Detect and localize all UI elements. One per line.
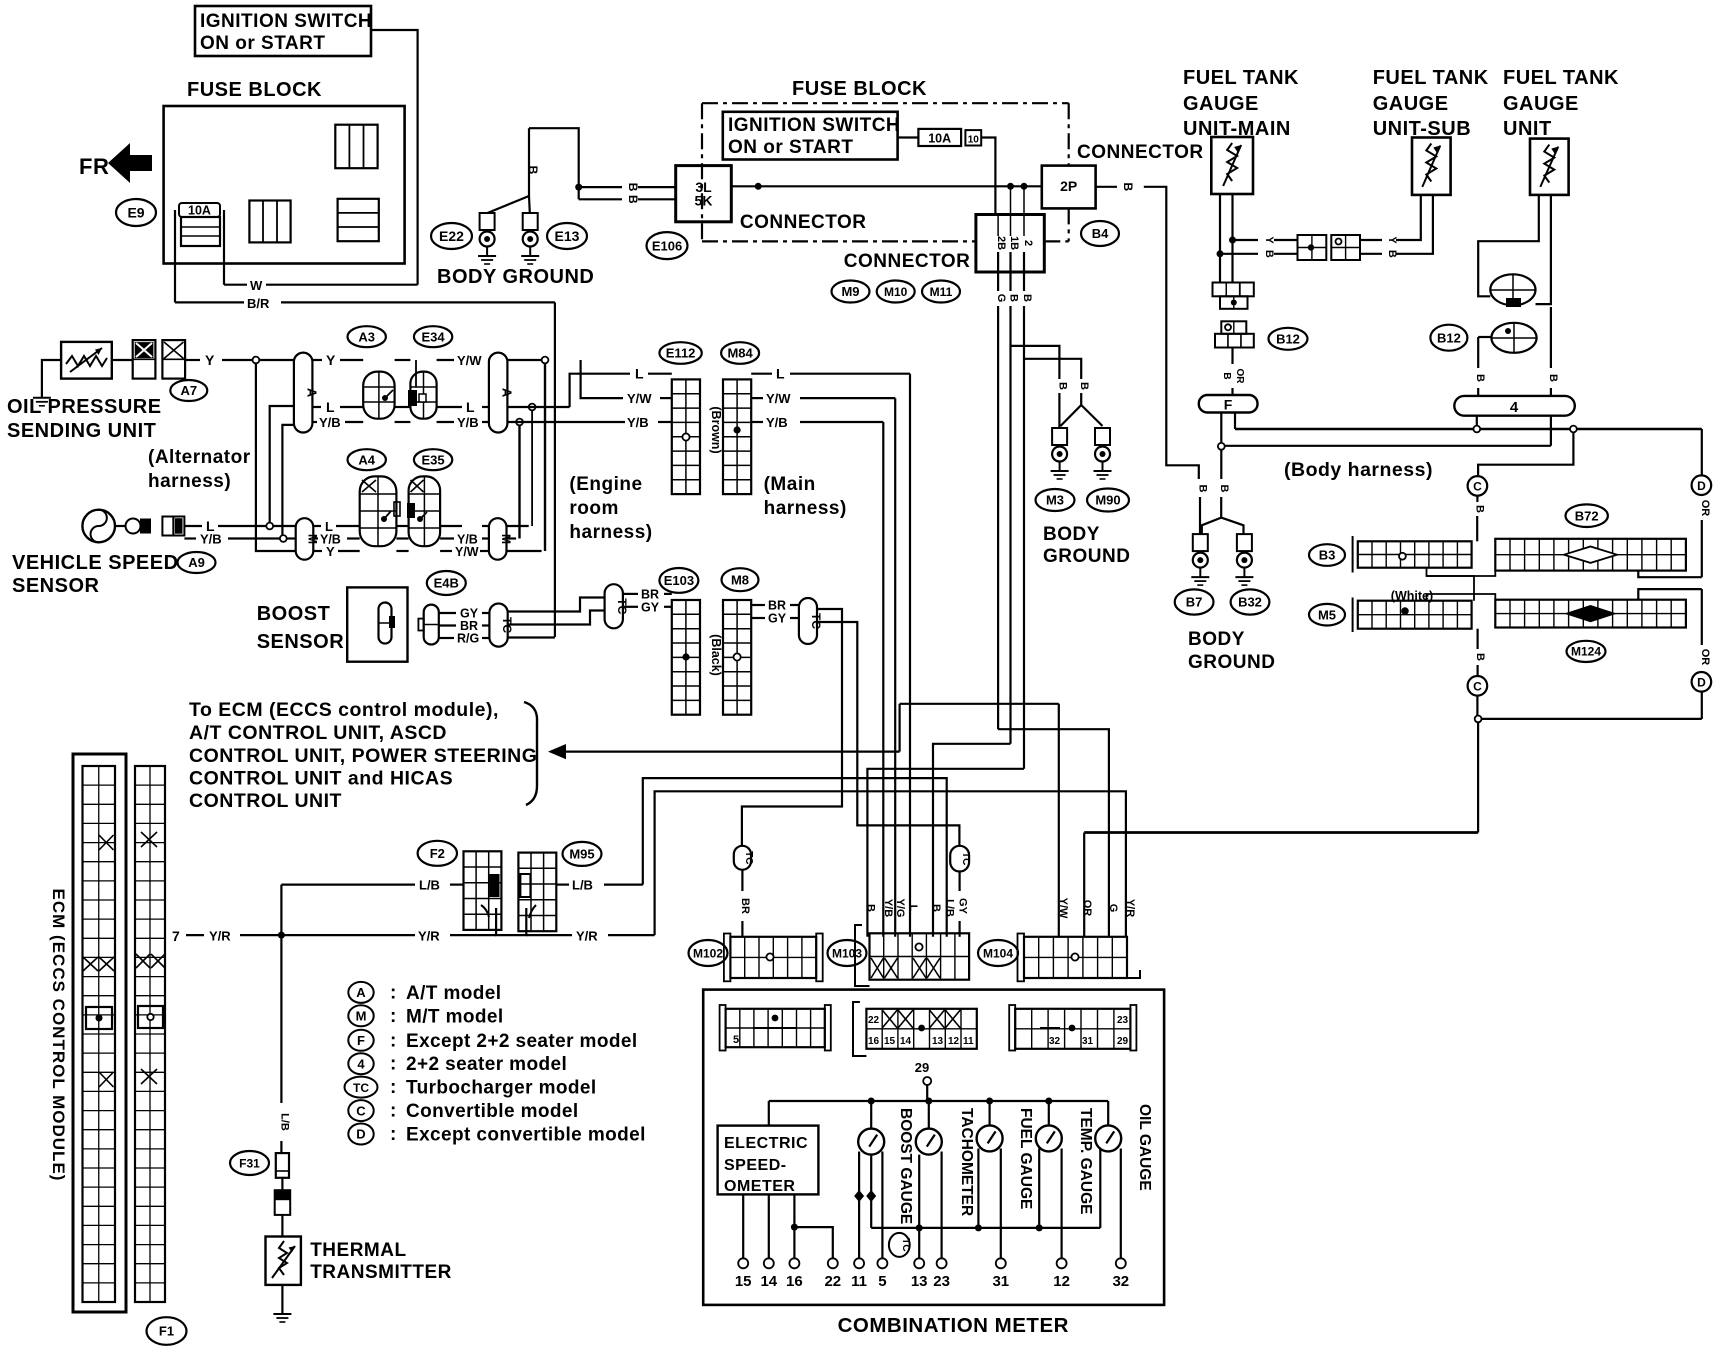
svg-text:TRANSMITTER: TRANSMITTER — [310, 1262, 452, 1283]
BODY GROUND label (M3/M90) — [1043, 524, 1130, 567]
connector A3 round — [363, 372, 394, 419]
wire 4 left pin — [1476, 416, 1478, 426]
connector E35 grid — [407, 476, 440, 546]
svg-text:CONTROL UNIT: CONTROL UNIT — [189, 790, 342, 812]
svg-text:BR: BR — [768, 599, 786, 613]
wire B lower with label — [579, 195, 676, 204]
svg-text:SENSOR: SENSOR — [12, 575, 100, 597]
connector M84 grid — [723, 379, 751, 494]
wire tach top — [928, 1101, 930, 1129]
wire boost top — [870, 1101, 872, 1129]
svg-text:E34: E34 — [422, 329, 446, 344]
meter connector 2 — [853, 1002, 977, 1056]
svg-text:A/T CONTROL UNIT, ASCD: A/T CONTROL UNIT, ASCD — [189, 722, 447, 744]
wire GY east of M8 — [751, 612, 799, 626]
svg-text:B4: B4 — [1092, 226, 1109, 241]
svg-text:A: A — [356, 985, 366, 1000]
wire B2 branch to M90 ground — [1024, 359, 1081, 379]
svg-text:1B: 1B — [1008, 236, 1020, 250]
inline connector pair (main-sub) — [1298, 235, 1361, 260]
svg-text:BODY: BODY — [1043, 524, 1100, 545]
speedometer wires — [743, 1194, 833, 1258]
oil pressure sending unit resistor — [61, 342, 112, 379]
svg-text:OIL GAUGE: OIL GAUGE — [1136, 1104, 1153, 1191]
wire M3 ground drop — [1058, 393, 1060, 428]
ECM (ECCS CONTROL MODULE) label — [49, 889, 68, 1182]
svg-text:BODY GROUND: BODY GROUND — [437, 266, 594, 288]
connector M90 oval — [1087, 489, 1129, 512]
connector B7 oval — [1175, 589, 1214, 614]
svg-text:IGNITION SWITCH: IGNITION SWITCH — [728, 115, 900, 136]
svg-text:CONTROL UNIT, POWER STEERING: CONTROL UNIT, POWER STEERING — [189, 745, 537, 767]
svg-text:GY: GY — [768, 612, 787, 626]
svg-text:11: 11 — [963, 1036, 974, 1047]
svg-text:Y/R: Y/R — [209, 929, 231, 944]
BODY GROUND label (B7/B32) — [1188, 629, 1275, 673]
label 29 and terminal — [915, 1060, 931, 1101]
wire L row mid — [312, 399, 335, 415]
connector B3 grid — [1353, 536, 1472, 573]
combination meter box — [703, 990, 1164, 1305]
svg-text:A7: A7 — [180, 383, 197, 398]
THERMAL label — [310, 1240, 406, 1261]
connector M10 oval — [877, 281, 915, 303]
ECM strip 1 grid — [83, 766, 116, 1302]
wire ignition switch to fuse W — [371, 30, 418, 285]
svg-text:Except convertible model: Except convertible model — [406, 1125, 646, 1146]
svg-text:B: B — [930, 904, 942, 912]
connector M5 oval — [1309, 604, 1345, 626]
svg-text:GROUND: GROUND — [1188, 652, 1275, 673]
label B at M90 drop — [1078, 382, 1090, 390]
link M124 left — [1427, 594, 1496, 601]
wire L with label (vss) — [184, 518, 215, 534]
connector F2 grid — [464, 851, 502, 930]
connector M11 oval — [922, 281, 960, 303]
svg-text:22: 22 — [824, 1273, 841, 1290]
ECM strip 2 grid — [135, 766, 165, 1302]
wire unit left pin — [1478, 195, 1539, 296]
wire junction down to OR line — [1477, 722, 1479, 832]
connector E34 oval label — [414, 326, 452, 347]
svg-text:M95: M95 — [569, 847, 594, 862]
svg-text::: : — [390, 1054, 396, 1075]
svg-text:GAUGE: GAUGE — [1373, 93, 1449, 115]
capsule connector (unit lower) — [1491, 323, 1536, 353]
svg-text:10A: 10A — [928, 132, 951, 146]
fuel tank gauge unit resistor — [1530, 139, 1569, 195]
wire 7 Y/R from ECM — [172, 928, 496, 944]
svg-text:L/B: L/B — [419, 878, 440, 893]
svg-text:OR: OR — [1699, 500, 1711, 517]
meter lower bus — [871, 1224, 1100, 1231]
wire G to M104 — [998, 729, 1109, 937]
wire B2 from connector — [1021, 186, 1033, 769]
wire TC to TC lower — [508, 611, 605, 625]
svg-text:B3: B3 — [1319, 548, 1336, 563]
svg-text:TC: TC — [960, 852, 971, 865]
wire D bottom to junction line — [1701, 692, 1703, 719]
svg-text:G: G — [995, 294, 1007, 303]
wire B/R long with label — [175, 296, 555, 311]
wire 10A to connector — [981, 138, 995, 215]
TC capsule (M8 side) — [799, 598, 823, 644]
wire fuse right hook to W — [223, 210, 225, 285]
label Y/B right of E35 — [457, 533, 478, 547]
svg-text:14: 14 — [760, 1273, 777, 1290]
svg-text:FUSE BLOCK: FUSE BLOCK — [792, 78, 927, 100]
inline connector (thermal) — [275, 1190, 291, 1215]
svg-text:B: B — [1121, 182, 1135, 191]
wire rows A4 Y/B — [313, 533, 489, 547]
svg-text:10A: 10A — [188, 204, 211, 218]
svg-text:A/T model: A/T model — [406, 983, 501, 1004]
svg-text:(Engine: (Engine — [569, 474, 642, 495]
wire Y/R up east — [655, 791, 1126, 937]
connector B72 oval — [1566, 504, 1608, 527]
svg-text:F: F — [357, 1033, 365, 1048]
svg-text:M124: M124 — [1571, 645, 1601, 659]
svg-text:ELECTRIC: ELECTRIC — [724, 1135, 808, 1152]
svg-text:B32: B32 — [1238, 595, 1262, 610]
svg-text:32: 32 — [1112, 1273, 1129, 1290]
svg-text:A: A — [500, 388, 515, 398]
wire L row capsule2 east — [507, 406, 569, 408]
svg-text:GY: GY — [957, 898, 969, 915]
svg-text:29: 29 — [915, 1060, 929, 1075]
svg-text:B: B — [1197, 485, 1209, 493]
boost gauge — [858, 1129, 884, 1155]
svg-text:(Main: (Main — [764, 474, 816, 495]
CONNECTOR label (3L/5K) — [740, 212, 867, 233]
wire Y/W jog to E112 — [581, 360, 672, 406]
svg-text:16: 16 — [868, 1036, 880, 1047]
wire Y/B east of M84 — [751, 415, 883, 430]
(Black) label — [709, 634, 723, 676]
svg-text:harness): harness) — [148, 471, 231, 492]
svg-text:E35: E35 — [422, 452, 445, 467]
BOOST GAUGE label — [897, 1108, 914, 1224]
svg-text:D: D — [1697, 675, 1706, 689]
svg-text:SENSOR: SENSOR — [257, 631, 345, 653]
svg-text:L: L — [326, 399, 335, 415]
svg-text:B: B — [1218, 485, 1230, 493]
connector B72 grid — [1495, 539, 1686, 571]
legend M/T model — [348, 1005, 503, 1027]
link B3 to M5 — [1427, 568, 1475, 601]
wire vertical jog Y/W (542) — [507, 357, 549, 551]
TRANSMITTER label — [310, 1262, 452, 1283]
wire Y row to A3 — [312, 352, 363, 368]
svg-text:Y/G: Y/G — [894, 899, 906, 918]
svg-text:F: F — [1224, 397, 1233, 413]
svg-text:B: B — [1263, 250, 1275, 258]
wire B to connector 3L/5K — [529, 128, 582, 199]
svg-text:M8: M8 — [731, 572, 749, 587]
main unit stacked connector — [1213, 283, 1254, 348]
svg-text:TACHOMETER: TACHOMETER — [958, 1108, 975, 1216]
svg-text:BOOST: BOOST — [257, 603, 331, 625]
svg-text:16: 16 — [786, 1273, 803, 1290]
svg-text:FR: FR — [79, 154, 109, 179]
wire F31 to connector — [281, 1178, 283, 1190]
svg-text:Turbocharger model: Turbocharger model — [406, 1078, 597, 1099]
wire vertical jog L (530) — [507, 404, 536, 526]
svg-text:4: 4 — [1510, 399, 1519, 416]
connector A4 grid — [360, 476, 400, 546]
svg-text:M5: M5 — [1318, 607, 1336, 622]
legend A/T model — [348, 982, 501, 1004]
svg-text:7: 7 — [172, 928, 180, 944]
boost sensor box — [347, 587, 407, 661]
svg-text:FUSE BLOCK: FUSE BLOCK — [187, 79, 322, 101]
wire unit right pin — [1536, 195, 1551, 304]
svg-text:5: 5 — [733, 1034, 739, 1046]
boost connector — [418, 605, 438, 645]
fuse 10A (middle) — [918, 129, 981, 146]
connector B12 oval (main) — [1269, 328, 1308, 350]
svg-text:GROUND: GROUND — [1043, 546, 1130, 567]
connector F1 oval — [147, 1317, 187, 1345]
svg-text::: : — [390, 1101, 396, 1122]
svg-text:BOOST GAUGE: BOOST GAUGE — [897, 1108, 914, 1224]
vss connector bulb — [115, 519, 151, 534]
connector E112 oval — [659, 342, 701, 364]
svg-text:C: C — [1473, 480, 1482, 494]
BODY GROUND label (top) — [437, 266, 594, 288]
CONNECTOR label (M9) — [844, 251, 971, 272]
svg-text::: : — [390, 1124, 396, 1145]
svg-text:11: 11 — [851, 1273, 867, 1290]
connector B12 oval (unit) — [1430, 325, 1467, 351]
link B72 left — [1427, 571, 1496, 576]
oil gauge — [1095, 1125, 1121, 1151]
svg-text:CONTROL UNIT and HICAS: CONTROL UNIT and HICAS — [189, 768, 453, 790]
tachometer wires — [919, 1152, 941, 1259]
connector M95 oval — [563, 842, 602, 866]
CONNECTOR label (B4) — [1077, 142, 1204, 163]
D circle (top) — [1692, 475, 1712, 495]
connector M8 grid — [723, 600, 751, 715]
oil unit connector pair — [133, 340, 185, 379]
connector A7 oval — [170, 380, 207, 401]
svg-text:B: B — [1547, 374, 1559, 382]
connector E103 oval — [659, 568, 698, 593]
svg-text:FUEL TANK: FUEL TANK — [1183, 67, 1299, 89]
connector M84 oval — [721, 342, 759, 364]
legend Except 2+2 seater — [348, 1030, 637, 1052]
svg-text:Y/R: Y/R — [576, 929, 598, 944]
wire bus to speedometer — [768, 1101, 770, 1126]
svg-text:32: 32 — [1049, 1036, 1061, 1047]
wire BR east of M8 — [751, 599, 799, 613]
body ground connector E13 side — [521, 213, 539, 264]
wire Y/W M104 horizontal — [900, 704, 1059, 937]
svg-text::: : — [390, 1077, 396, 1098]
FUEL GAUGE label — [1017, 1108, 1034, 1209]
svg-text:R/G: R/G — [457, 632, 479, 646]
wire B down to body ground — [526, 128, 540, 196]
wire BR to M102 — [739, 870, 751, 937]
svg-text:M90: M90 — [1095, 493, 1120, 508]
wire F left to ground — [1218, 413, 1230, 518]
svg-text:(Black): (Black) — [709, 634, 723, 676]
connector F2 oval — [418, 841, 457, 866]
svg-text:OR: OR — [1699, 649, 1711, 666]
svg-text:2B: 2B — [995, 236, 1007, 250]
wire TC to TC upper — [508, 598, 605, 612]
meter connector 3 — [1009, 1005, 1136, 1051]
TC capsule (boost) — [489, 604, 513, 647]
connector E4B oval — [427, 571, 466, 595]
svg-text:L: L — [907, 905, 919, 912]
harness capsule A (upper right) — [489, 353, 515, 433]
D circle (bottom) — [1692, 672, 1712, 692]
svg-text:C: C — [356, 1103, 366, 1118]
wire B/R vertical — [554, 302, 556, 637]
svg-text:Convertible model: Convertible model — [406, 1101, 579, 1122]
svg-text:E9: E9 — [127, 205, 144, 221]
labels above M103 — [864, 899, 955, 918]
wire Y/B row capsule jog — [282, 425, 294, 535]
meter connector 1 — [720, 1005, 831, 1051]
tachometer gauge — [916, 1129, 942, 1155]
wire L/B up east — [643, 778, 947, 937]
(Body harness) label — [1284, 459, 1433, 481]
fuse symbol (3-bar vertical, upper right) — [335, 125, 377, 169]
TACHOMETER label — [958, 1108, 975, 1216]
svg-text:10: 10 — [968, 135, 980, 146]
svg-text:OIL PRESSURE: OIL PRESSURE — [7, 396, 162, 418]
svg-text:G: G — [1107, 904, 1119, 913]
wire L label right — [466, 399, 475, 415]
wire unit lower capsule to 4 — [1474, 337, 1491, 396]
(Alternator harness) label — [148, 447, 251, 492]
fuel gauge wires — [978, 1149, 1000, 1259]
connector A3 oval label — [348, 326, 386, 347]
wire GY label (boost) — [439, 607, 490, 621]
FUEL TANK GAUGE UNIT-SUB label — [1373, 67, 1489, 140]
wire GY to M103 — [957, 872, 969, 937]
connector E34 round — [408, 372, 437, 419]
svg-text:Y/W: Y/W — [627, 391, 652, 406]
fuse block box (left) — [164, 106, 405, 264]
wire fuse left hook to B/R — [174, 210, 176, 302]
wire B to sub — [1220, 250, 1298, 258]
wire TC to BR drop — [742, 609, 842, 846]
wire oil top — [1107, 1101, 1109, 1125]
wire split to B7/B32 grounds — [1202, 518, 1244, 535]
svg-text:B: B — [526, 166, 540, 175]
svg-text:room: room — [569, 498, 619, 519]
wire L jog to E112 — [570, 366, 672, 407]
wire OR thick to M104 — [1084, 831, 1478, 834]
temp gauge — [1036, 1125, 1062, 1151]
svg-text:VEHICLE SPEED: VEHICLE SPEED — [12, 552, 179, 574]
svg-text:5K: 5K — [695, 193, 713, 209]
svg-text:M: M — [356, 1009, 367, 1024]
wire OR to M104 — [1083, 833, 1085, 937]
svg-text:(Brown): (Brown) — [709, 406, 723, 453]
svg-text:M11: M11 — [930, 285, 953, 299]
svg-text:M104: M104 — [983, 946, 1013, 960]
svg-text:(Alternator: (Alternator — [148, 447, 251, 468]
boost gauge wires — [854, 1152, 882, 1259]
wire B upper with label — [579, 183, 676, 192]
connector M104 grid — [1018, 934, 1141, 982]
svg-text:CONNECTOR: CONNECTOR — [844, 251, 971, 272]
svg-text:23: 23 — [1117, 1015, 1129, 1026]
wire M124 to D circle (bottom) — [1638, 589, 1702, 645]
OR label (top D) — [1699, 500, 1711, 517]
legend Turbocharger — [345, 1077, 597, 1099]
connector F31 oval — [230, 1151, 269, 1175]
svg-text:Y: Y — [205, 352, 215, 368]
wire BR label (boost) — [439, 619, 490, 633]
body ground connector B7 — [1191, 534, 1209, 585]
wire Y/W down to M103 — [894, 398, 896, 937]
meter terminals — [738, 1258, 1126, 1268]
connector 3L/5K box — [676, 166, 732, 222]
svg-text:D: D — [1697, 479, 1706, 493]
svg-text:SENDING UNIT: SENDING UNIT — [7, 420, 156, 442]
svg-text:CONNECTOR: CONNECTOR — [740, 212, 867, 233]
main bus wire y429 — [1235, 426, 1702, 433]
wire F2 hook to Y/R — [496, 908, 526, 935]
wire B sub side — [1360, 195, 1433, 258]
svg-text:ECM (ECCS CONTROL MODULE): ECM (ECCS CONTROL MODULE) — [49, 889, 68, 1182]
wire unit pin to 4 — [1547, 307, 1559, 396]
svg-text:A: A — [305, 388, 320, 398]
svg-text:B: B — [1474, 374, 1486, 382]
svg-text:B: B — [626, 195, 640, 204]
wire R/G label (boost) — [439, 632, 490, 646]
OR label (bottom D) — [1699, 649, 1711, 666]
wire B1 branch to M3 ground — [1011, 346, 1060, 379]
connector M103 oval — [828, 940, 867, 966]
svg-text:IGNITION SWITCH: IGNITION SWITCH — [200, 11, 372, 32]
fuse symbol (3-bar vertical, lower middle) — [249, 201, 290, 243]
connector box 2B/1B/2 — [976, 215, 1044, 273]
svg-text:L: L — [776, 366, 785, 382]
TEMP. GAUGE label — [1077, 1108, 1094, 1215]
svg-text:(Body harness): (Body harness) — [1284, 459, 1433, 481]
wire rows A3 region Y/B — [345, 421, 489, 423]
body ground connector B32 — [1235, 534, 1253, 585]
wire arrow feed — [898, 704, 900, 752]
svg-text:E22: E22 — [439, 228, 464, 244]
ECM strip 2 marks — [136, 832, 165, 1084]
temp gauge wires — [1039, 1149, 1061, 1259]
svg-text:F31: F31 — [239, 1156, 260, 1170]
wire Y/B down to M103 — [882, 422, 884, 937]
connector E103 grid — [672, 600, 700, 715]
svg-text:B: B — [1078, 382, 1090, 390]
wire Y/B row capsule2 east — [507, 421, 625, 423]
(White) label — [1391, 589, 1433, 603]
FUSE BLOCK label (middle) — [792, 78, 927, 100]
connector E35 oval label — [414, 449, 452, 470]
wire Y/B right label — [457, 415, 479, 430]
svg-text:Y: Y — [1263, 236, 1275, 244]
wire Y/R right — [526, 929, 654, 944]
svg-text:A4: A4 — [358, 452, 375, 467]
svg-text:13: 13 — [911, 1273, 928, 1290]
connector 2P box — [1042, 166, 1096, 209]
svg-text:B: B — [1474, 505, 1486, 513]
FUEL TANK GAUGE UNIT label — [1503, 67, 1619, 140]
harness capsule M (lower right) — [489, 518, 513, 560]
